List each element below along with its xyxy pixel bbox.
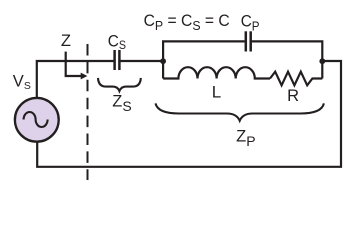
wire: parallel section left vertical and top branch to CP — [163, 41, 245, 78]
node B — [319, 58, 325, 64]
wire: top-left run from source up and right to CS — [37, 61, 115, 98]
svg-text:R: R — [287, 87, 299, 105]
capacitor CP — [246, 31, 251, 51]
arrow: impedance Z measurement (tick + elbow arrow) — [66, 52, 88, 80]
resistor R — [270, 72, 322, 86]
boundary dashed line — [87, 44, 89, 180]
voltage source VS — [15, 98, 59, 142]
node A — [160, 58, 166, 64]
wire: CS to node A — [119, 60, 163, 62]
label CS — [108, 33, 126, 52]
label equation CP = CS = C — [144, 11, 230, 33]
label CP — [241, 13, 260, 34]
capacitor CS — [115, 50, 120, 70]
brace ZP — [156, 103, 324, 120]
svg-text:Z: Z — [61, 32, 71, 50]
svg-text:L: L — [212, 82, 221, 101]
wire: CP to right vertical of parallel section — [251, 41, 323, 78]
brace ZS — [98, 78, 141, 91]
wire: node B to right side, bottom and back to source — [37, 61, 341, 167]
inductor L — [163, 67, 270, 78]
